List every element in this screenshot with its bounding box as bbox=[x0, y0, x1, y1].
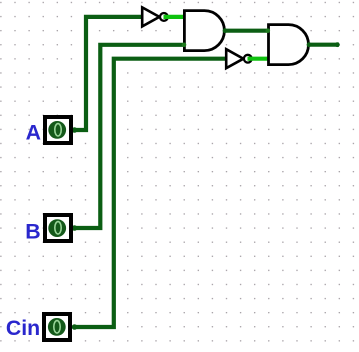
wire U4 output (value 0) bbox=[309, 43, 340, 47]
port dot pin A bbox=[72, 127, 78, 133]
port dot U2 output bbox=[223, 28, 228, 33]
junction dot U2 lower input bbox=[182, 43, 187, 48]
wire net B (value 0) : pin B stub, vertical riser, horizontal to AND gate U2 lower input bbox=[73, 45, 185, 228]
input pin B bbox=[45, 215, 71, 241]
AND gate U2 (left) bbox=[184, 11, 224, 51]
wire U2 output to U4 top input (value 0) bbox=[224, 29, 268, 33]
svg-text:A: A bbox=[26, 121, 41, 145]
wire net A (value 0) : pin A stub, vertical riser, horizontal to inverter U1 input bbox=[73, 17, 143, 130]
svg-text:B: B bbox=[25, 219, 40, 243]
junction dot U4 top input bbox=[266, 28, 271, 33]
input pin Cin bbox=[44, 314, 70, 340]
inverter U3 (NOT gate, lower) bbox=[226, 49, 252, 68]
wire net Cin (value 0) : pin Cin stub, vertical riser, horizontal to inverter U3 input bbox=[73, 59, 226, 327]
wire end dot bbox=[335, 42, 340, 47]
inverter U1 (NOT gate, top) bbox=[142, 7, 168, 26]
svg-text:Cin: Cin bbox=[6, 316, 40, 340]
AND gate U4 (right) bbox=[269, 25, 309, 65]
wire U3 output to U4 bottom input (value 1, bright green) bbox=[248, 57, 269, 61]
port dot U4 output bbox=[307, 42, 312, 47]
wire U1 output to U2 top input (value 1, bright green) bbox=[164, 15, 185, 19]
input pin A bbox=[45, 117, 71, 143]
port dot pin Cin bbox=[72, 324, 78, 330]
port dot pin B bbox=[72, 225, 78, 231]
